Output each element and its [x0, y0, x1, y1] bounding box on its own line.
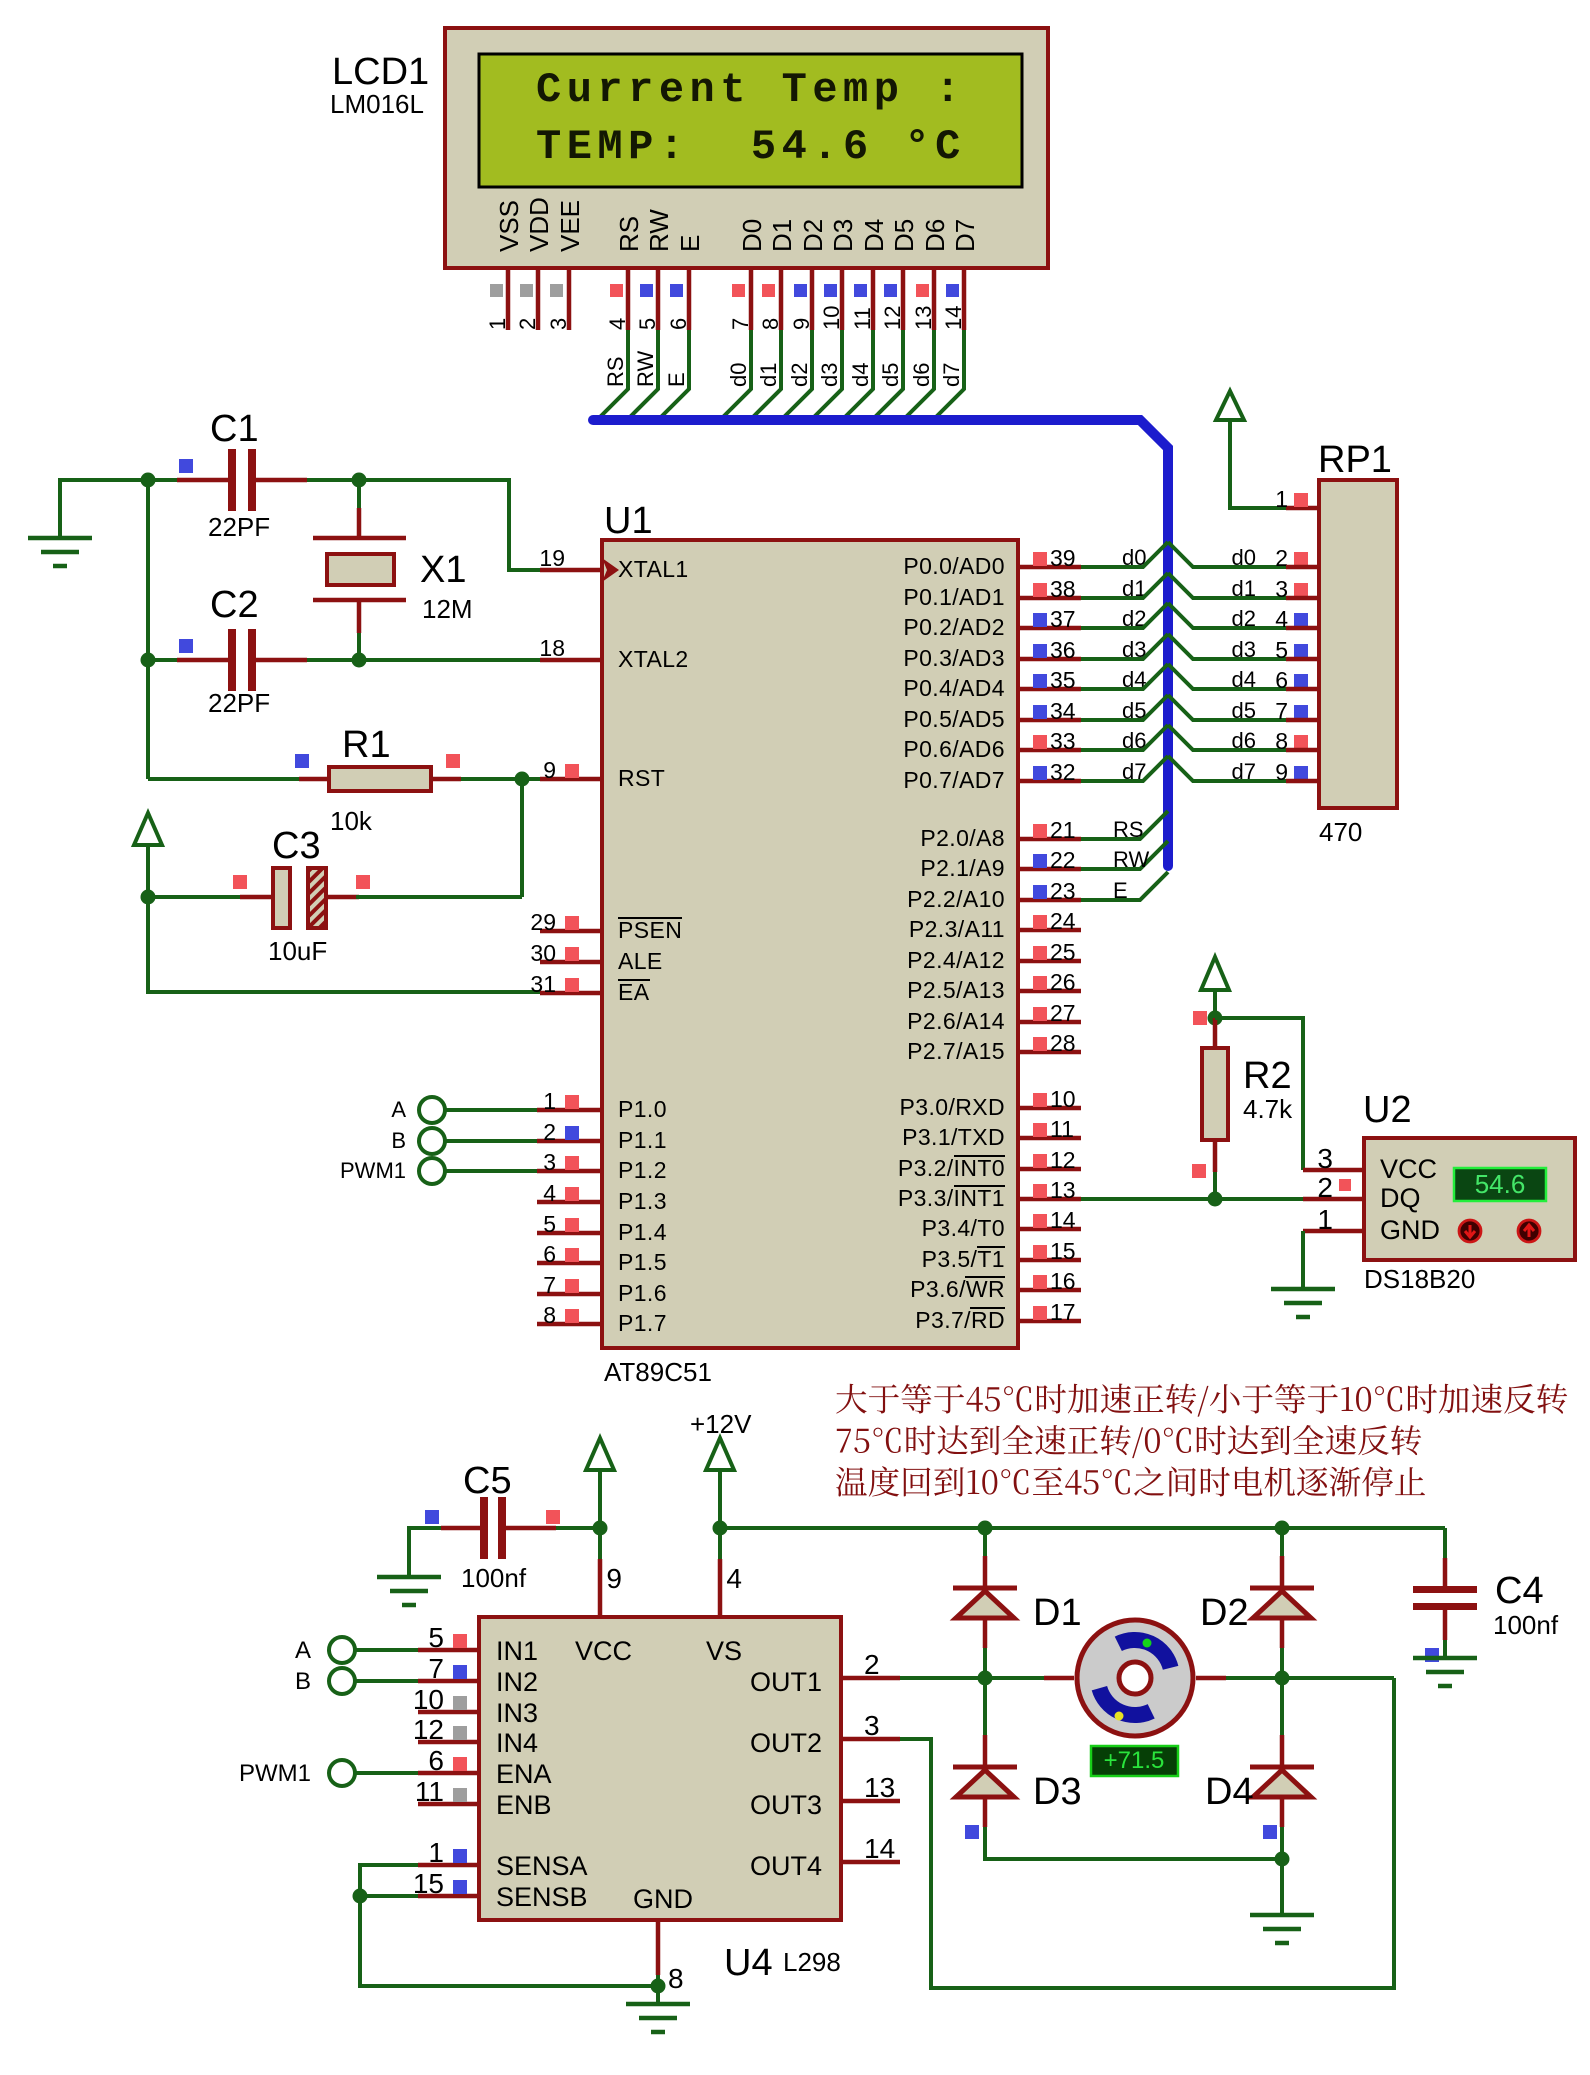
RP1 pin 1 state square [1294, 493, 1308, 507]
motor driver U4 L298 body [479, 1617, 841, 1920]
U1 pin 6 (P1.5) stub [537, 1261, 602, 1266]
svg-text:E: E [1113, 878, 1128, 903]
U1 pin 3 (P1.2) stub [537, 1169, 602, 1174]
svg-text:19: 19 [539, 545, 565, 571]
svg-text:13: 13 [1050, 1177, 1076, 1203]
svg-text:38: 38 [1050, 576, 1076, 602]
svg-text:12: 12 [1050, 1147, 1076, 1173]
wire C3 to RST branch [356, 895, 522, 899]
wire d5 U1 to bus [1081, 695, 1168, 720]
U1 pin 39 (P0.0/AD0) stub [1018, 565, 1081, 570]
svg-text:d2: d2 [1232, 606, 1256, 631]
U1 pin 23 state square [1033, 885, 1047, 899]
LCD1 pin 4 state square [610, 284, 623, 297]
U4 pin 15 state square [453, 1880, 467, 1894]
svg-text:P1.5: P1.5 [618, 1249, 667, 1275]
wire d2 U1 to bus [1081, 603, 1168, 628]
U1 pin 38 state square [1033, 583, 1047, 597]
wire motor right to corner [1226, 1676, 1394, 1680]
svg-text:D6: D6 [920, 219, 950, 252]
resistor R2 top stub [1213, 1018, 1218, 1048]
wire motor rail to D3 [983, 1678, 987, 1735]
U1 pin 13 state square [1033, 1184, 1047, 1198]
svg-text:14: 14 [941, 306, 966, 330]
svg-text:54.6: 54.6 [1475, 1169, 1526, 1199]
svg-text:12: 12 [413, 1714, 444, 1745]
D3 state square [965, 1825, 979, 1839]
svg-text:7: 7 [543, 1272, 556, 1298]
C1 state square [179, 459, 193, 473]
resistor R1 body [329, 767, 431, 791]
U1 pin 11 state square [1033, 1123, 1047, 1137]
svg-text:P1.7: P1.7 [618, 1310, 667, 1336]
svg-text:470: 470 [1319, 817, 1362, 847]
crystal X1 top lead [357, 508, 362, 538]
svg-text:15: 15 [1050, 1238, 1076, 1264]
R2 bottom state square [1192, 1164, 1206, 1178]
svg-text:ALE: ALE [618, 948, 663, 974]
RP1 pin 9 stub [1286, 779, 1319, 784]
svg-text:11: 11 [850, 307, 875, 330]
svg-text:OUT2: OUT2 [750, 1728, 822, 1758]
svg-text:9: 9 [789, 318, 814, 330]
RP1 pin 3 stub [1286, 596, 1319, 601]
svg-text:8: 8 [543, 1302, 556, 1328]
node junction RST / C3 branch [515, 772, 530, 787]
svg-text:10: 10 [819, 306, 844, 330]
svg-text:37: 37 [1050, 606, 1076, 632]
U2 pin 3 stub [1303, 1168, 1364, 1173]
U1 pin 31 (EA) stub [540, 991, 602, 996]
DC motor body [1077, 1620, 1193, 1736]
svg-text:5: 5 [635, 318, 660, 330]
svg-text:12M: 12M [422, 594, 473, 624]
wire rail down to C4 [1443, 1528, 1447, 1558]
svg-text:12: 12 [880, 306, 905, 330]
ground symbol (U2) [1271, 1287, 1335, 1292]
LCD1 pin 5 state square [640, 284, 653, 297]
svg-text:2: 2 [543, 1119, 556, 1145]
svg-text:IN1: IN1 [496, 1636, 538, 1666]
wire D4 to ground [1280, 1827, 1284, 1915]
svg-text:14: 14 [864, 1833, 895, 1864]
LCD1 pin 12 stub [901, 268, 906, 330]
terminal B (U4 side) [329, 1668, 355, 1694]
U1 pin 32 state square [1033, 766, 1047, 780]
chinese note line [837, 1425, 1421, 1458]
U2 pin 2 state square [1339, 1179, 1351, 1191]
U1 pin 37 (P0.2/AD2) stub [1018, 626, 1081, 631]
wire RS U1 to bus [1081, 811, 1168, 839]
U1 pin 10 state square [1033, 1093, 1047, 1107]
capacitor C3 right stub [326, 895, 359, 900]
wire OUT2 loop [900, 1678, 1394, 1988]
terminal A (U4 side) [329, 1637, 355, 1663]
U1 pin 32 (P0.7/AD7) stub [1018, 779, 1081, 784]
svg-text:10uF: 10uF [268, 936, 327, 966]
svg-text:DQ: DQ [1380, 1183, 1421, 1213]
U1 pin 14 state square [1033, 1214, 1047, 1228]
capacitor C5 right stub [506, 1526, 556, 1531]
chinese note line [836, 1466, 1425, 1496]
U1 pin 4 state square [565, 1187, 579, 1201]
wire D1 to motor rail [983, 1648, 987, 1678]
U2 down button [1459, 1220, 1481, 1242]
svg-text:AT89C51: AT89C51 [604, 1357, 712, 1387]
svg-text:SENSA: SENSA [496, 1851, 588, 1881]
motor yellow dot [1115, 1712, 1124, 1721]
wire d1 U1 to bus [1081, 573, 1168, 598]
capacitor C3 left stub [240, 895, 273, 900]
LCD1 display module LM016L body [445, 28, 1048, 268]
svg-text:P3.1/TXD: P3.1/TXD [902, 1124, 1005, 1150]
U4 pin 9 stub (VCC) [598, 1559, 603, 1617]
svg-text:LCD1: LCD1 [332, 51, 429, 93]
RP1 pin 6 stub [1286, 687, 1319, 692]
U1 pin 36 state square [1033, 644, 1047, 658]
svg-text:4: 4 [726, 1563, 742, 1594]
U1 pin 7 (P1.6) stub [537, 1292, 602, 1297]
svg-text:RW: RW [633, 351, 658, 387]
svg-text:13: 13 [911, 306, 936, 330]
svg-text:4: 4 [605, 318, 630, 330]
LCD1 pin 7 stub [749, 268, 754, 330]
svg-text:4: 4 [543, 1180, 556, 1206]
RP1 pin 8 stub [1286, 748, 1319, 753]
U1 pin 24 (P2.3/A11) stub [1018, 928, 1081, 933]
U4 pin 1 (SENSA) stub [418, 1863, 479, 1868]
RP1 pin 2 stub [1286, 565, 1319, 570]
svg-text:P3.2/INT0: P3.2/INT0 [898, 1155, 1005, 1181]
svg-text:VCC: VCC [1380, 1154, 1437, 1184]
C4 state square [1425, 1648, 1439, 1662]
U4 pin 10 state square [453, 1696, 467, 1710]
LCD1 pin 3 stub [567, 268, 572, 330]
svg-text:10k: 10k [330, 806, 373, 836]
power symbol VCC (U4) [586, 1438, 614, 1470]
svg-text:2: 2 [864, 1649, 880, 1680]
svg-text:P3.6/WR: P3.6/WR [910, 1276, 1005, 1302]
svg-text:C1: C1 [210, 408, 259, 450]
RP1 pin 8 state square [1294, 735, 1308, 749]
capacitor C1 left stub [177, 478, 229, 483]
U1 pin 34 state square [1033, 705, 1047, 719]
svg-text:d5: d5 [878, 363, 903, 387]
wire VCC arrow to C3 rail [146, 845, 150, 897]
node junction SENSA/SENSB [353, 1889, 368, 1904]
LCD1 green screen [479, 54, 1022, 187]
wire +12V rail to C4 [720, 1526, 1445, 1530]
node junction DQ / R2 [1208, 1192, 1223, 1207]
svg-text:VSS: VSS [494, 200, 524, 252]
svg-text:IN3: IN3 [496, 1698, 538, 1728]
svg-text:3: 3 [543, 1149, 556, 1175]
wire VCC to U2 pin 3 [1215, 1018, 1303, 1170]
U2 pin 2 stub [1303, 1197, 1364, 1202]
RP1 pin 4 state square [1294, 613, 1308, 627]
svg-text:21: 21 [1050, 817, 1076, 843]
wire d6 U1 to bus [1081, 725, 1168, 750]
node junction left rail / C2 [141, 653, 156, 668]
LCD1 pin 10 stub [840, 268, 845, 330]
RP1 pin 3 state square [1294, 583, 1308, 597]
wire d1 bus to RP1 [1168, 573, 1286, 598]
svg-text:L298: L298 [783, 1947, 841, 1977]
LCD1 pin 12 state square [884, 284, 897, 297]
svg-text:30: 30 [530, 940, 556, 966]
wire terminal A to U4 [355, 1648, 418, 1652]
svg-text:OUT4: OUT4 [750, 1851, 822, 1881]
U1 pin 23 (P2.2/A10) stub [1018, 898, 1081, 903]
svg-text:P1.4: P1.4 [618, 1219, 667, 1245]
svg-text:36: 36 [1050, 637, 1076, 663]
svg-text:d2: d2 [787, 363, 812, 387]
svg-text:E: E [675, 235, 705, 252]
crystal X1 top electrode [313, 536, 406, 541]
U1 pin 33 (P0.6/AD6) stub [1018, 748, 1081, 753]
resistor R1 left stub [299, 777, 329, 782]
D4 state square [1263, 1825, 1277, 1839]
U1 pin 14 (P3.4/T0) stub [1018, 1227, 1081, 1232]
U1 pin 2 (P1.1) stub [537, 1139, 602, 1144]
U1 pin 24 state square [1033, 915, 1047, 929]
svg-text:+71.5: +71.5 [1104, 1747, 1165, 1774]
capacitor C5 ground wire [409, 1528, 441, 1577]
svg-text:P0.5/AD5: P0.5/AD5 [903, 706, 1005, 732]
RP1 pin 2 state square [1294, 552, 1308, 566]
capacitor C5 left stub [441, 1526, 480, 1531]
wire R2 bottom to DQ net [1213, 1172, 1217, 1199]
svg-text:C4: C4 [1495, 1570, 1544, 1612]
C2 state square [179, 639, 193, 653]
LCD1 pin 10 state square [824, 284, 837, 297]
svg-text:2: 2 [515, 318, 540, 330]
svg-text:3: 3 [1317, 1143, 1333, 1174]
terminal B (U1 side) [419, 1128, 445, 1154]
RP1 pin 5 stub [1286, 657, 1319, 662]
svg-text:24: 24 [1050, 908, 1076, 934]
power symbol +12V [706, 1438, 734, 1470]
wire d3 U1 to bus [1081, 634, 1168, 659]
RP1 pin 4 stub [1286, 626, 1319, 631]
svg-text:P3.4/T0: P3.4/T0 [922, 1215, 1005, 1241]
C5 state squares [425, 1510, 439, 1524]
svg-text:10: 10 [1050, 1086, 1076, 1112]
svg-text:7: 7 [728, 318, 753, 330]
wire GND pin to ground [656, 1975, 660, 2004]
wire LCD pin 10 to bus (d3) [814, 330, 842, 417]
svg-text:TEMP: 54.6 °C: TEMP: 54.6 °C [536, 123, 966, 171]
LCD1 pin 14 stub [962, 268, 967, 330]
svg-text:d1: d1 [1232, 576, 1256, 601]
chinese note line [836, 1384, 1567, 1417]
svg-text:P0.0/AD0: P0.0/AD0 [903, 553, 1005, 579]
svg-text:14: 14 [1050, 1207, 1076, 1233]
microcontroller U1 AT89C51 body [602, 540, 1018, 1348]
C3 state squares [233, 875, 247, 889]
svg-text:U2: U2 [1363, 1089, 1412, 1131]
U4 pin 14 (OUT4) stub [841, 1860, 900, 1865]
capacitor C2 right stub [256, 658, 307, 663]
wire d5 bus to RP1 [1168, 695, 1286, 720]
svg-text:d4: d4 [848, 363, 873, 387]
U1 pin 9 state square [565, 764, 579, 778]
wire D3 to bottom rail [985, 1827, 1282, 1859]
svg-text:3: 3 [864, 1710, 880, 1741]
U1 pin 35 (P0.4/AD4) stub [1018, 687, 1081, 692]
capacitor C4 bottom stub [1443, 1610, 1448, 1640]
svg-text:P1.3: P1.3 [618, 1188, 667, 1214]
svg-text:+12V: +12V [690, 1409, 752, 1439]
power symbol VCC (RP1) [1216, 391, 1244, 420]
crystal X1 bottom lead [357, 600, 362, 633]
temperature sensor U2 DS18B20 body [1364, 1138, 1575, 1260]
RP1 pin 1 stub [1286, 506, 1319, 511]
R2 top state square [1193, 1011, 1207, 1025]
U1 pin 16 state square [1033, 1275, 1047, 1289]
svg-text:D4: D4 [859, 219, 889, 252]
svg-text:P1.1: P1.1 [618, 1127, 667, 1153]
capacitor C5 plates [480, 1497, 488, 1559]
svg-text:32: 32 [1050, 759, 1076, 785]
svg-text:P2.7/A15: P2.7/A15 [907, 1038, 1005, 1064]
LCD1 pin 7 state square [732, 284, 745, 297]
LCD1 pin 11 state square [854, 284, 867, 297]
svg-text:11: 11 [415, 1776, 444, 1807]
LCD1 pin 5 stub [656, 268, 661, 330]
svg-text:D5: D5 [889, 219, 919, 252]
svg-text:P1.6: P1.6 [618, 1280, 667, 1306]
wire SENSA loop [360, 1865, 658, 1986]
svg-text:P0.2/AD2: P0.2/AD2 [903, 614, 1005, 640]
U1 pin 36 (P0.3/AD3) stub [1018, 657, 1081, 662]
wire LCD pin 13 to bus (d6) [906, 330, 934, 417]
svg-text:4.7k: 4.7k [1243, 1094, 1293, 1124]
svg-text:7: 7 [428, 1653, 444, 1684]
svg-text:6: 6 [428, 1745, 444, 1776]
svg-text:5: 5 [428, 1622, 444, 1653]
U4 pin 7 state square [453, 1665, 467, 1679]
svg-text:d6: d6 [909, 363, 934, 387]
node junction D3/D4 bottom [1275, 1852, 1290, 1867]
wire D2 to motor rail [1280, 1648, 1284, 1678]
node junction D2/D4/motor-right [1275, 1671, 1290, 1686]
U1 pin 18 (XTAL2) stub [540, 658, 602, 663]
svg-text:35: 35 [1050, 667, 1076, 693]
wire RW U1 to bus [1081, 841, 1168, 869]
svg-text:6: 6 [666, 318, 691, 330]
wire C1 to X1 top / XTAL1 [307, 480, 545, 570]
U1 pin 19 (XTAL1) stub [540, 568, 602, 573]
svg-text:GND: GND [1380, 1215, 1440, 1245]
svg-text:17: 17 [1050, 1299, 1076, 1325]
U4 pin 6 state square [453, 1757, 467, 1771]
LCD1 pin 8 state square [762, 284, 775, 297]
U1 pin 6 state square [565, 1248, 579, 1262]
motor speed display +71.5 [1091, 1746, 1178, 1776]
svg-text:22PF: 22PF [208, 512, 270, 542]
svg-text:d0: d0 [726, 363, 751, 387]
U4 pin 11 state square [453, 1788, 467, 1802]
svg-text:33: 33 [1050, 728, 1076, 754]
U4 pin 5 state square [453, 1634, 467, 1648]
svg-text:D2: D2 [798, 219, 828, 252]
U1 pin 12 (P3.2/INT0) stub [1018, 1167, 1081, 1172]
wire U2 GND down [1301, 1231, 1305, 1289]
wire LCD pin 14 to bus (d7) [936, 330, 964, 417]
U1 pin 25 (P2.4/A12) stub [1018, 959, 1081, 964]
U1 pin 28 state square [1033, 1037, 1047, 1051]
capacitor C2 plates [228, 629, 236, 691]
svg-text:P2.3/A11: P2.3/A11 [909, 916, 1005, 942]
wire C5 to VCC junction [556, 1526, 600, 1530]
svg-text:P1.2: P1.2 [618, 1157, 667, 1183]
U4 pin 12 state square [453, 1726, 467, 1740]
U1 pin 17 (P3.7/RD) stub [1018, 1319, 1081, 1324]
svg-text:D3: D3 [828, 219, 858, 252]
wire VCC to RP1 pin 1 [1230, 420, 1286, 508]
svg-text:10: 10 [413, 1684, 444, 1715]
capacitor C4 top stub [1443, 1558, 1448, 1589]
node junction D1/motor-left [978, 1671, 993, 1686]
svg-text:E: E [664, 372, 689, 387]
svg-text:d3: d3 [1232, 637, 1256, 662]
diode D3 [983, 1735, 988, 1765]
svg-text:D0: D0 [737, 219, 767, 252]
svg-text:PSEN: PSEN [618, 917, 682, 943]
wire LCD pin 12 to bus (d5) [875, 330, 903, 417]
svg-text:P0.4/AD4: P0.4/AD4 [903, 675, 1005, 701]
wire d7 U1 to bus [1081, 756, 1168, 781]
svg-text:P3.0/RXD: P3.0/RXD [900, 1094, 1005, 1120]
capacitor C4 plates [1413, 1586, 1477, 1593]
svg-text:100nf: 100nf [1493, 1610, 1559, 1640]
U1 pin 34 (P0.5/AD5) stub [1018, 718, 1081, 723]
ground symbol (C4) [1413, 1656, 1477, 1661]
LCD1 pin 1 state square [490, 284, 503, 297]
svg-text:d7: d7 [1232, 759, 1256, 784]
svg-text:29: 29 [530, 909, 556, 935]
capacitor C3 left plate [273, 868, 290, 928]
wire left rail to R1 [148, 777, 299, 781]
svg-text:39: 39 [1050, 545, 1076, 571]
U1 pin 1 state square [565, 1095, 579, 1109]
svg-text:LM016L: LM016L [330, 89, 424, 119]
svg-text:U4: U4 [724, 1942, 773, 1984]
svg-text:8: 8 [668, 1963, 684, 1994]
LCD1 pin 2 stub [536, 268, 541, 330]
motor green dot [1143, 1639, 1152, 1648]
U1 pin 22 state square [1033, 854, 1047, 868]
data/control bus (blue) [593, 420, 1168, 866]
node junction C2 / X1 bottom [352, 653, 367, 668]
U1 pin 37 state square [1033, 613, 1047, 627]
U1 pin 15 (P3.5/T1) stub [1018, 1258, 1081, 1263]
wire VCC rail down to EA [148, 897, 540, 992]
capacitor C1 plates [228, 449, 236, 511]
U1 pin 1 (P1.0) stub [537, 1108, 602, 1113]
U1 pin 8 (P1.7) stub [537, 1322, 602, 1327]
wire E U1 to bus [1081, 872, 1168, 900]
svg-text:RW: RW [644, 209, 674, 252]
U1 pin 29 state square [565, 916, 579, 930]
U4 pin 15 (SENSB) stub [418, 1894, 479, 1899]
svg-text:d4: d4 [1232, 667, 1256, 692]
wire LCD pin 8 to bus (d1) [753, 330, 781, 417]
svg-text:6: 6 [543, 1241, 556, 1267]
svg-text:VCC: VCC [575, 1636, 632, 1666]
svg-text:9: 9 [543, 757, 556, 783]
